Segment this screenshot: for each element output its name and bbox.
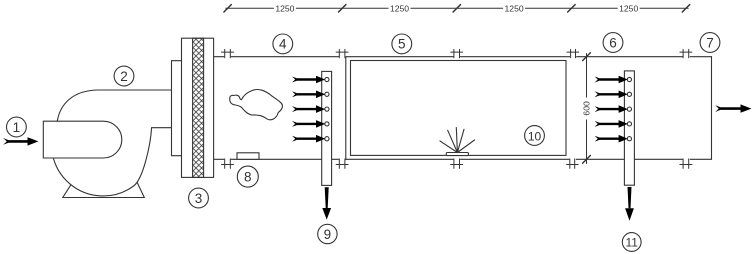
duct top wall: [214, 56, 712, 58]
fan outlet flange plate: [172, 61, 182, 156]
label 7: [700, 33, 720, 53]
duct bottom wall: [214, 158, 712, 160]
label 6: [603, 33, 623, 53]
label 8: [237, 166, 258, 187]
svg-text:1250: 1250: [275, 3, 294, 13]
dimension line (top, 4 x 1250): [224, 3, 690, 13]
flange joint top 4: [567, 49, 579, 57]
label 2: [114, 66, 134, 86]
flange joint top 1: [222, 49, 234, 57]
flange joint bottom 5: [680, 159, 692, 169]
flange joint top 5: [680, 49, 692, 57]
fan base stand: [63, 183, 145, 198]
svg-text:1: 1: [13, 120, 21, 135]
label 11: [622, 233, 641, 252]
flange joint bottom 2: [336, 159, 348, 169]
svg-text:10: 10: [528, 129, 542, 143]
section 5 inner chamber box: [351, 61, 567, 156]
svg-text:6: 6: [609, 35, 617, 50]
inlet air arrow 1: [3, 137, 38, 145]
access door 8 (tab on bottom wall): [237, 153, 259, 160]
svg-text:2: 2: [120, 69, 128, 84]
section 4/5 partition plate: [345, 57, 347, 160]
spray nozzle base 10: [446, 153, 468, 156]
flange joint bottom 4: [567, 159, 579, 169]
label 4: [273, 34, 293, 54]
label 3: [189, 188, 209, 208]
fan housing scroll arc: [51, 121, 133, 196]
cloud (dust): [230, 90, 283, 120]
flange joint bottom 1: [222, 159, 234, 169]
svg-text:1250: 1250: [619, 3, 638, 13]
label 5: [392, 34, 412, 54]
spray lines: [440, 128, 475, 153]
flange joint top 2: [336, 49, 348, 57]
filter media (cross-hatched): [193, 38, 204, 177]
svg-text:8: 8: [244, 169, 252, 184]
svg-text:1250: 1250: [505, 3, 524, 13]
svg-text:600: 600: [582, 101, 592, 116]
duct right end wall: [711, 57, 713, 160]
svg-text:3: 3: [195, 191, 203, 206]
vertical dimension 600: [582, 53, 592, 164]
drain arrow (below section-4 bar): [322, 187, 331, 219]
spray arrows section 6: [595, 76, 628, 143]
label 10: [525, 126, 545, 146]
spray arrows section 4: [292, 76, 325, 143]
svg-text:5: 5: [398, 37, 406, 52]
svg-text:7: 7: [706, 35, 714, 50]
svg-text:4: 4: [279, 37, 287, 52]
fan scroll top outline: [57, 90, 171, 121]
label 9: [318, 224, 337, 243]
outlet air arrow: [715, 104, 751, 112]
svg-text:9: 9: [324, 227, 332, 242]
label 1: [7, 117, 27, 137]
nozzle bar (section 6): [624, 71, 634, 185]
flange joint top 3: [451, 49, 463, 57]
svg-text:11: 11: [625, 236, 638, 250]
fan volute cutoff (outlet lower wall): [134, 128, 172, 186]
flange joint bottom 3: [451, 159, 463, 169]
fan inlet duct (side view): [43, 121, 122, 158]
nozzle bar (section 4): [322, 71, 332, 185]
drain arrow (below section-6 bar): [625, 187, 634, 221]
filter housing 3: [182, 38, 214, 177]
svg-text:1250: 1250: [390, 3, 409, 13]
